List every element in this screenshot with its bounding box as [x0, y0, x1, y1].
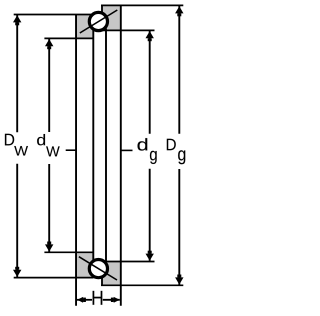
extension line D_g bottom y=285.3 — [101, 284, 183, 286]
washer section bottom-right (gray) — [101, 262, 121, 286]
label d_W — [37, 134, 60, 156]
thrust bearing cross-section diagram — [0, 0, 196, 316]
extension line D_W bottom y=277.6 — [14, 277, 94, 279]
wire: step edge stub bottom x=102 — [101, 278, 103, 286]
H dim line right segment — [103, 299, 120, 301]
leader dash right (outer line to d_g label) — [121, 149, 133, 151]
H arrow right — [114, 297, 120, 303]
extension line D_g top y=5.4 — [101, 4, 183, 6]
ball bottom — [89, 260, 107, 278]
washer section bottom-left (gray) — [75, 252, 94, 277]
ball top — [89, 12, 107, 30]
washer section top-left (gray) — [75, 15, 94, 39]
wire: step edge stub top x=102 — [101, 5, 103, 13]
wire: inner silhouette line x=93.5 — [92, 28, 94, 263]
slash through bottom ball — [79, 257, 117, 280]
H arrow left — [77, 297, 83, 303]
wire: outer silhouette line right x=120.8 — [120, 5, 122, 305]
extension line d_W top y=38.4 — [44, 37, 93, 39]
label H — [93, 291, 103, 305]
extension line d_g top y=30.4 — [102, 29, 155, 31]
slash through top ball — [80, 10, 118, 33]
label D_g — [167, 139, 186, 165]
dimension line d_g x=149.7 — [146, 31, 154, 261]
dimension line D_g x=179.3 — [175, 6, 183, 285]
extension line d_g bottom y=261.5 — [102, 261, 155, 263]
wire: inner silhouette line x=106 — [105, 29, 107, 263]
H dim line left segment — [77, 299, 92, 301]
dimension line d_W x=49.2 — [45, 39, 53, 252]
dimension H: extension lines already part of silhouette lines — [77, 297, 120, 303]
dimension line D_W x=17.2 — [13, 15, 21, 277]
leader dash left (d_W label to bore line) — [66, 149, 76, 151]
extension line d_W bottom y=252.3 — [44, 251, 93, 253]
washer section top-right (gray) — [101, 5, 121, 30]
label d_g — [138, 138, 157, 164]
label D_W — [5, 134, 28, 156]
extension line D_W top y=14.5 — [14, 14, 94, 16]
wire: bore silhouette line left x=76 — [75, 15, 77, 306]
